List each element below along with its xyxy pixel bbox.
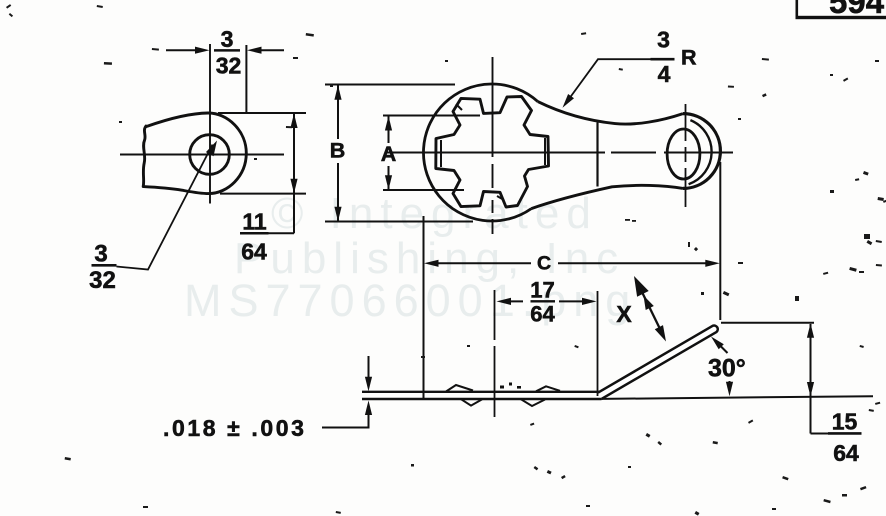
svg-text:64: 64 [833,440,859,466]
dim A extension line top [383,115,480,117]
svg-text:4: 4 [658,61,671,87]
svg-text:R: R [681,46,697,70]
svg-text:X: X [616,301,632,327]
dim 15/64 dimension line with arrows [810,324,812,434]
label 15/64 [832,409,859,467]
dim C dimension line with arrows [437,262,706,264]
svg-text:11: 11 [242,209,267,235]
svg-text:17: 17 [530,278,554,303]
dim 11/64 extension line bottom [220,193,306,195]
svg-text:3: 3 [221,26,234,52]
svg-text:32: 32 [89,267,116,294]
tail end inner curl arc [689,120,712,184]
svg-text:64: 64 [241,239,267,265]
svg-text:B: B [330,139,346,163]
side view flat strip top line [362,391,599,393]
dim 11/64 extension line top [218,112,306,114]
label 3/4 R [657,27,697,88]
svg-text:594: 594 [829,0,885,20]
tail outline bottom edge [531,185,683,208]
label 11/64 [241,209,267,265]
svg-text:.018 ± .003: .018 ± .003 [163,415,307,441]
svg-text:© Integrated: © Integrated [271,189,598,238]
dim A dimension line with arrows [388,116,390,190]
dim 3/32 top extension line right [245,45,247,113]
leader from 3/4 R to neck [566,59,651,103]
left view vertical centerline [209,44,211,204]
watermark text [184,189,637,326]
left view outline (broken-end lug) [143,113,246,194]
dim C extension line right [719,162,721,320]
dim C extension line left [423,216,425,398]
dim A extension line bottom [383,189,464,191]
dim 17/64 extension left (centerline ext) [494,290,496,417]
svg-text:C: C [537,253,551,275]
tooth twist marks [440,140,442,167]
leader from 3/32 to hole [117,145,213,270]
main head vertical centerline [492,57,494,234]
tail hole vertical centerline [685,104,687,207]
dim 3/32 top dimension line right arrow [259,49,284,51]
dim B extension line bottom [325,221,473,223]
svg-text:3: 3 [94,241,107,268]
tail end outer arc [683,114,720,189]
label 17/64 [530,278,555,327]
svg-text:A: A [381,142,397,166]
tail outline top edge [538,102,683,124]
label 3/32 (top) [216,26,242,79]
title box 594 (top-right, cropped) [796,0,886,20]
svg-text:15: 15 [832,409,858,435]
label 3/32 (hole size) [89,241,116,295]
dim 17/64 dimension line with arrows [509,300,584,302]
angle reference baseline [602,396,874,399]
dim 11/64 leader to fraction [268,232,294,234]
serration teeth on strip (side view) [446,385,473,392]
upper thickness arrow [368,356,370,379]
dim 3/32 top dimension line left arrow [166,49,197,51]
left view horizontal centerline [120,154,284,156]
main horizontal centerline [385,152,733,154]
leader from .018 to strip [322,414,369,428]
svg-text:64: 64 [530,302,555,327]
svg-text:30°: 30° [708,355,746,383]
dim 15/64 top reference line [721,322,814,324]
svg-text:3: 3 [657,27,670,53]
dim B dimension line with arrows [337,85,339,221]
angle arrow to bent tab [719,345,728,354]
side view flat strip bottom line [362,398,602,400]
dim 11/64 dimension line with arrows [293,113,295,233]
side view bent tab at 30 deg [598,326,718,399]
left view hole [190,135,230,175]
dim 17/64 extension right (bend line ext) [597,291,599,396]
angle arrow to baseline [729,381,731,385]
tail oval hole [667,129,700,179]
svg-text:32: 32 [216,53,242,79]
main head outer circle arc [423,84,537,221]
double-headed arrow X (perpendicular to bent tab) [641,290,661,331]
dim B extension line top [325,84,455,86]
dim 15/64 leader to fraction [811,433,829,435]
bend line across tail [596,123,598,187]
lock-washer internal teeth (star) [436,97,549,208]
